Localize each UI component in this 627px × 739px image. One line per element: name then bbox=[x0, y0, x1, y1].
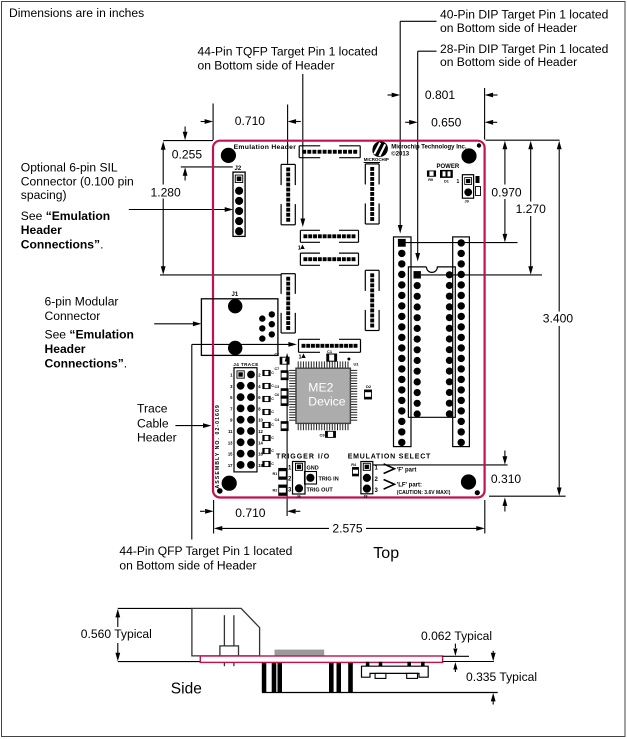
svg-text:0.970: 0.970 bbox=[491, 185, 522, 199]
arrow from SIL label to J2 bbox=[129, 207, 233, 212]
label: 28-Pin DIP target pin 1 bbox=[440, 42, 608, 69]
svg-text:(CAUTION: 3.6V MAX!): (CAUTION: 3.6V MAX!) bbox=[397, 490, 451, 496]
svg-text:ASSEMBLY NO. 02-01609: ASSEMBLY NO. 02-01609 bbox=[215, 404, 221, 488]
svg-text:3: 3 bbox=[375, 488, 379, 494]
dimension 0.255 bbox=[172, 127, 203, 181]
jumper J8 emulation select bbox=[361, 462, 379, 499]
silkscreen: POWER label bbox=[437, 164, 460, 170]
extension line: J2 pin1 row bbox=[181, 166, 233, 168]
label: 44-Pin QFP target pin 1 bbox=[119, 544, 292, 572]
svg-text:Header: Header bbox=[137, 430, 177, 444]
svg-text:C: C bbox=[271, 371, 274, 375]
silkscreen: assembly number vertical text bbox=[215, 404, 221, 488]
arrow from trace label to board bbox=[175, 423, 211, 428]
resistor R9 bbox=[427, 171, 435, 182]
dimension 0.970 bbox=[491, 141, 522, 243]
svg-text:0.801: 0.801 bbox=[425, 88, 456, 102]
svg-text:7: 7 bbox=[230, 406, 233, 411]
extension line: 40-pin DIP pin1 row bbox=[406, 242, 518, 244]
svg-text:1.280: 1.280 bbox=[151, 185, 182, 199]
mounting hole bottom-left bbox=[217, 476, 237, 494]
svg-text:13: 13 bbox=[228, 440, 233, 445]
svg-text:'LF' part:: 'LF' part: bbox=[397, 483, 422, 489]
svg-text:MICROCHIP: MICROCHIP bbox=[364, 157, 389, 162]
svg-text:C9: C9 bbox=[320, 433, 326, 438]
side view connector pins bbox=[220, 615, 239, 666]
connector J4 trace cable header bbox=[228, 362, 264, 472]
side view ME2 device bbox=[275, 650, 325, 656]
extension line: board bottom edge extended right bbox=[489, 495, 566, 497]
svg-text:TRIG IN: TRIG IN bbox=[319, 477, 339, 483]
svg-text:2.575: 2.575 bbox=[332, 521, 363, 535]
dimension 0.710 bottom bbox=[200, 506, 300, 520]
resistor R2 bbox=[273, 485, 287, 495]
svg-text:J1: J1 bbox=[232, 292, 239, 298]
svg-text:on Bottom side of Header: on Bottom side of Header bbox=[440, 21, 577, 35]
svg-text:44-Pin QFP Target Pin 1 locate: 44-Pin QFP Target Pin 1 located bbox=[119, 544, 292, 558]
svg-text:0.710: 0.710 bbox=[235, 506, 266, 520]
svg-text:C1: C1 bbox=[327, 349, 333, 354]
PCB board outline bbox=[213, 141, 485, 498]
svg-text:Cable: Cable bbox=[137, 416, 169, 430]
emulation header right column lower bbox=[365, 270, 379, 330]
header J5 TQFP row 1 bbox=[300, 230, 358, 242]
svg-text:J4 TRACE: J4 TRACE bbox=[233, 362, 258, 367]
jumper J9 bbox=[457, 175, 481, 204]
svg-text:C: C bbox=[271, 397, 274, 401]
silkscreen: Emulation Header text bbox=[234, 144, 297, 151]
mounting hole bottom-right bbox=[461, 474, 480, 495]
svg-text:2: 2 bbox=[288, 477, 292, 483]
svg-text:9: 9 bbox=[230, 418, 233, 423]
svg-text:Trace: Trace bbox=[137, 402, 168, 416]
svg-text:Connector: Connector bbox=[45, 309, 101, 323]
resistor R4 bbox=[351, 463, 358, 476]
extension line: board right edge extended up bbox=[484, 88, 486, 140]
LED D1 bbox=[440, 170, 453, 184]
silkscreen: Microchip Technology Inc / 2013 bbox=[391, 144, 467, 157]
svg-text:Optional 6-pin SIL: Optional 6-pin SIL bbox=[21, 160, 118, 174]
svg-text:C3: C3 bbox=[274, 385, 279, 389]
svg-text:J8: J8 bbox=[363, 494, 367, 498]
dimension 0.801 bbox=[388, 88, 498, 102]
svg-text:0.335 Typical: 0.335 Typical bbox=[466, 670, 537, 684]
label: 6-pin modular connector bbox=[45, 294, 134, 370]
svg-text:2: 2 bbox=[258, 373, 261, 378]
svg-text:U1: U1 bbox=[354, 362, 360, 367]
side view extension bottom bbox=[118, 661, 201, 663]
socket XU3 28-pin DIP left column pins bbox=[414, 271, 421, 418]
dimension 3.400 bbox=[543, 141, 574, 496]
svg-text:C7: C7 bbox=[274, 367, 279, 371]
svg-text:spacing): spacing) bbox=[21, 188, 67, 202]
svg-text:0.310: 0.310 bbox=[491, 472, 522, 486]
note: Dimensions are in inches bbox=[9, 6, 144, 20]
IC U1 ME2 device QFP bbox=[289, 361, 357, 430]
svg-text:1: 1 bbox=[375, 466, 379, 472]
svg-text:0.710: 0.710 bbox=[235, 114, 266, 128]
svg-text:44-Pin TQFP Target Pin 1 locat: 44-Pin TQFP Target Pin 1 located bbox=[198, 45, 378, 59]
emulation header top row bbox=[299, 146, 360, 158]
svg-text:0.062 Typical: 0.062 Typical bbox=[421, 629, 492, 643]
extension line: board right edge extended down bbox=[484, 500, 486, 534]
svg-text:1.270: 1.270 bbox=[516, 202, 547, 216]
svg-text:D1: D1 bbox=[444, 180, 449, 184]
silkscreen: EMULATION SELECT label bbox=[348, 453, 431, 460]
svg-text:2: 2 bbox=[375, 477, 379, 483]
dimension 0.650 bbox=[405, 116, 497, 130]
svg-text:C: C bbox=[271, 410, 274, 414]
svg-text:Top: Top bbox=[373, 545, 399, 562]
socket XU2 40-pin DIP right column bbox=[453, 237, 470, 447]
svg-text:GND: GND bbox=[307, 466, 319, 472]
svg-text:See “Emulation: See “Emulation bbox=[45, 328, 134, 342]
Microchip logo bbox=[364, 141, 389, 162]
svg-text:11: 11 bbox=[228, 429, 233, 434]
svg-text:17: 17 bbox=[228, 463, 233, 468]
svg-text:C: C bbox=[271, 462, 274, 466]
socket XU2 40-pin DIP left column bbox=[394, 237, 412, 447]
svg-text:6: 6 bbox=[258, 395, 261, 400]
label: Optional 6-pin SIL connector bbox=[21, 160, 134, 251]
socket XU3 28-pin DIP outline with notch bbox=[408, 267, 455, 417]
extension line: emulation select pin1 row bbox=[373, 464, 508, 466]
extension line: modular header row for 1.280 bbox=[160, 274, 281, 276]
extension line: board left edge extended down bbox=[213, 500, 215, 534]
socket XU3 28-pin DIP right column pins bbox=[446, 271, 453, 417]
selector chevron LF part bbox=[384, 480, 451, 496]
svg-text:R1: R1 bbox=[273, 472, 278, 476]
svg-text:TRIGGER I/O: TRIGGER I/O bbox=[276, 453, 330, 460]
svg-text:1: 1 bbox=[298, 246, 301, 252]
extension line: board top edge extended right bbox=[486, 139, 560, 141]
svg-text:See “Emulation: See “Emulation bbox=[21, 209, 110, 223]
svg-text:C: C bbox=[271, 436, 274, 440]
svg-text:40-Pin DIP Target Pin 1 locate: 40-Pin DIP Target Pin 1 located bbox=[440, 8, 608, 22]
svg-text:C6: C6 bbox=[274, 393, 279, 397]
svg-text:D2: D2 bbox=[366, 384, 372, 389]
svg-text:Microchip Technology Inc.: Microchip Technology Inc. bbox=[391, 144, 467, 150]
dimension 0.710 top bbox=[201, 114, 301, 128]
side view extension top bbox=[118, 607, 192, 609]
label: 40-Pin DIP target pin 1 bbox=[440, 8, 608, 35]
leader from 28-Pin DIP label to socket pin 1 bbox=[415, 51, 436, 261]
svg-text:3.400: 3.400 bbox=[543, 312, 574, 326]
svg-text:ME2: ME2 bbox=[308, 381, 333, 395]
svg-text:R4: R4 bbox=[351, 463, 357, 467]
pin1 mark for TQFP row bbox=[298, 245, 305, 252]
connector J6 trigger bbox=[288, 462, 339, 499]
svg-text:Device: Device bbox=[308, 395, 345, 409]
selector chevron F part bbox=[384, 464, 417, 474]
svg-text:3: 3 bbox=[230, 384, 233, 389]
reference line: QFP pin1 column with up arrow bbox=[285, 353, 290, 516]
mounting hole top-right bbox=[461, 143, 481, 163]
side view dimension 0.560 bbox=[81, 609, 152, 661]
svg-text:R9: R9 bbox=[428, 178, 433, 182]
svg-text:1: 1 bbox=[230, 373, 233, 378]
emulation header left column lower bbox=[281, 274, 295, 333]
svg-text:1: 1 bbox=[457, 179, 460, 185]
side view modular connector profile bbox=[192, 608, 260, 656]
label: Top view title bbox=[373, 545, 399, 562]
svg-text:C4: C4 bbox=[274, 418, 279, 422]
capacitors left of U1 bbox=[274, 353, 289, 431]
extension line: TQFP reference above board bbox=[287, 105, 289, 164]
svg-text:Header: Header bbox=[21, 223, 62, 237]
svg-text:TRIG OUT: TRIG OUT bbox=[307, 488, 334, 494]
label: Trace Cable Header bbox=[137, 402, 177, 445]
svg-text:Header: Header bbox=[45, 342, 86, 356]
svg-text:EMULATION SELECT: EMULATION SELECT bbox=[348, 453, 431, 460]
connector J1 6-pin modular bbox=[201, 292, 278, 355]
svg-text:Dimensions are in inches: Dimensions are in inches bbox=[9, 6, 144, 20]
svg-text:R2: R2 bbox=[273, 489, 278, 493]
side view dimension 0.335 bbox=[466, 651, 537, 705]
svg-text:4: 4 bbox=[258, 384, 261, 389]
leader from 44-Pin TQFP label to header J5 bbox=[300, 74, 305, 227]
side view dimension 0.062 bbox=[421, 629, 494, 672]
svg-text:J6: J6 bbox=[297, 494, 301, 498]
svg-text:5: 5 bbox=[230, 395, 233, 400]
svg-text:0.255: 0.255 bbox=[172, 148, 203, 162]
connector J2 6-pin SIL bbox=[233, 166, 245, 237]
label: 44-Pin TQFP target pin 1 bbox=[198, 45, 378, 73]
pin1 mark for QFP bottom row bbox=[299, 354, 306, 361]
svg-text:on Bottom side of Header: on Bottom side of Header bbox=[440, 55, 577, 69]
silkscreen: TRIGGER I/O label bbox=[276, 453, 330, 460]
svg-text:Connections”.: Connections”. bbox=[21, 238, 104, 252]
svg-text:3: 3 bbox=[288, 488, 292, 494]
svg-text:Connections”.: Connections”. bbox=[45, 356, 128, 370]
svg-text:Emulation Header: Emulation Header bbox=[234, 144, 297, 151]
svg-text:C: C bbox=[271, 423, 274, 427]
svg-text:J9: J9 bbox=[465, 200, 469, 204]
header J5 TQFP row 2 bbox=[300, 253, 358, 265]
svg-text:0.560 Typical: 0.560 Typical bbox=[81, 627, 152, 641]
dimension 1.280 bbox=[151, 141, 182, 275]
svg-text:12: 12 bbox=[258, 429, 263, 434]
svg-text:on Bottom side of Header: on Bottom side of Header bbox=[198, 58, 335, 72]
mounting hole top-left bbox=[221, 148, 236, 163]
svg-text:8: 8 bbox=[258, 406, 261, 411]
svg-text:on Bottom side of Header: on Bottom side of Header bbox=[119, 558, 256, 572]
dimension 0.310 bbox=[491, 451, 522, 512]
arrow from modular label to J1 bbox=[154, 321, 201, 326]
capacitor C1 above U1 bbox=[327, 349, 360, 367]
leader from 44-Pin QFP label to QFP header bbox=[192, 342, 297, 540]
svg-text:28-Pin DIP Target Pin 1 locate: 28-Pin DIP Target Pin 1 located bbox=[440, 42, 608, 56]
capacitor C9 below U1 bbox=[320, 431, 336, 437]
extension line: 28-pin DIP pin1 row bbox=[421, 274, 542, 276]
capacitor D2 right of U1 bbox=[365, 384, 372, 399]
svg-text:1: 1 bbox=[288, 466, 292, 472]
leader from 40-Pin DIP label to socket pin 1 bbox=[398, 21, 437, 233]
svg-text:1: 1 bbox=[299, 355, 302, 361]
svg-text:6-pin Modular: 6-pin Modular bbox=[45, 294, 119, 308]
header QFP bottom row bbox=[299, 339, 361, 352]
dimension 1.270 bbox=[516, 141, 547, 275]
svg-text:J2: J2 bbox=[235, 166, 242, 172]
svg-text:Connector (0.100 pin: Connector (0.100 pin bbox=[21, 174, 134, 188]
side view PCB board bbox=[200, 656, 442, 662]
svg-text:Side: Side bbox=[171, 680, 202, 697]
svg-text:0.650: 0.650 bbox=[431, 116, 462, 130]
dimension 2.575 bbox=[214, 521, 485, 535]
svg-text:C: C bbox=[271, 449, 274, 453]
emulation header left column upper bbox=[281, 164, 295, 224]
label: Side view title bbox=[171, 680, 202, 697]
side view socket legs below board bbox=[262, 663, 498, 693]
svg-text:'F' part: 'F' part bbox=[397, 468, 417, 474]
extension line: board top edge extended left bbox=[163, 140, 213, 142]
resistor R1 bbox=[273, 468, 287, 479]
svg-text:©2013: ©2013 bbox=[391, 150, 409, 157]
extension line: board left edge extended up bbox=[212, 104, 214, 141]
svg-text:POWER: POWER bbox=[437, 164, 460, 170]
side view DIP socket profile bbox=[362, 662, 429, 679]
capacitor column right of J4 bbox=[263, 370, 274, 466]
svg-text:15: 15 bbox=[228, 452, 233, 457]
svg-text:C2: C2 bbox=[274, 353, 279, 357]
emulation header right column upper bbox=[365, 164, 379, 224]
